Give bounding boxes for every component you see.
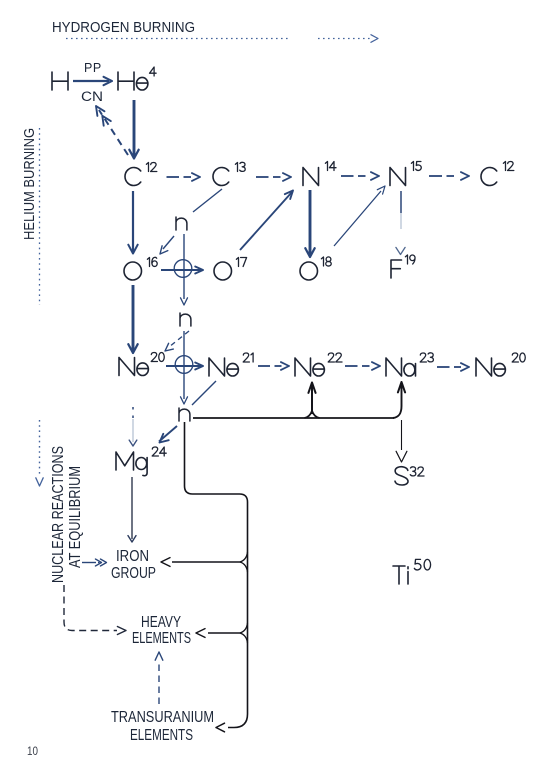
svg-text:AT EQUILIBRIUM: AT EQUILIBRIUM xyxy=(67,466,84,568)
svg-text:NUCLEAR REACTIONS: NUCLEAR REACTIONS xyxy=(50,446,67,583)
svg-text:HYDROGEN BURNING: HYDROGEN BURNING xyxy=(52,20,195,36)
svg-text:HEAVY: HEAVY xyxy=(141,614,181,631)
svg-text:PP: PP xyxy=(84,61,102,75)
svg-text:HELIUM BURNING: HELIUM BURNING xyxy=(21,128,38,240)
svg-text:ELEMENTS: ELEMENTS xyxy=(132,630,191,647)
svg-text:ELEMENTS: ELEMENTS xyxy=(130,727,193,744)
svg-text:TRANSURANIUM: TRANSURANIUM xyxy=(111,709,214,726)
svg-text:CN: CN xyxy=(81,89,103,104)
svg-text:10: 10 xyxy=(27,744,38,758)
svg-text:GROUP: GROUP xyxy=(111,565,156,582)
svg-text:IRON: IRON xyxy=(116,548,149,565)
